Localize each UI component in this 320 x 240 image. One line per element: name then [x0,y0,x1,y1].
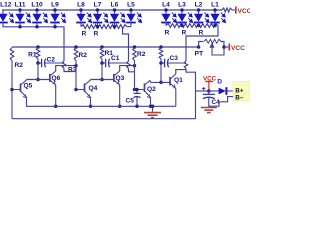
junction C5 emitter bus [135,105,139,109]
svg-text:R2: R2 [137,51,146,58]
resistor row R group3 [166,24,218,28]
resistor R2 stage2 [74,48,78,61]
wire group1 cathode rail [3,22,64,61]
junction cap node stage1 [36,61,40,65]
junction L7 on R row [96,25,100,29]
transistor Q5 [12,80,27,98]
transistor Q4 [76,80,91,98]
svg-text:Q2: Q2 [147,86,156,93]
svg-text:L6: L6 [111,1,119,8]
LED L4 [161,8,176,22]
wire LED cathode stub [198,22,200,25]
junction R1 top stage2 [100,45,104,49]
svg-text:VCC: VCC [231,45,245,52]
wire PT to VCC [224,46,228,48]
resistor R2 stage3 [133,48,137,61]
svg-text:Q5: Q5 [24,82,33,89]
junction base node stage1 [10,88,14,92]
LED L8 [76,8,91,22]
svg-text:L1: L1 [211,1,219,8]
junction base node stage2 [74,88,78,92]
junction emitter bus Q6 [54,105,58,109]
wire R1 bottom stage3 [160,59,162,82]
LED L11 [15,8,30,22]
junction group1 rail [35,25,39,29]
PT wiper arrow [210,43,224,55]
ground symbol 1 [144,113,161,118]
svg-text:Q1: Q1 [174,77,183,84]
wire PT right [221,42,225,48]
wire group3 loop to R3 stage3 [186,26,218,62]
junction R2 top stage3 [133,45,137,49]
svg-text:L11: L11 [15,1,26,8]
junction R2 bottom stage2 [74,64,78,68]
wire VCC stub [208,82,210,92]
svg-text:L9: L9 [51,1,59,8]
resistor R3 stage2 [127,61,131,69]
junction C5 top [135,88,139,92]
LED L6 [110,8,125,22]
LED L7 [93,8,108,22]
svg-text:L7: L7 [94,1,102,8]
resistor R1 stage2 [100,48,104,60]
junction base node stage3 [133,88,137,92]
wire R3 stage2 to Q2 base node [129,69,135,72]
junction group1 rail [53,25,57,29]
wire collector bus stage1 [26,79,50,81]
wire Q6 emitter [55,85,57,106]
wire Q2 emitter [150,97,152,106]
wire LED cathode stub [54,22,56,27]
resistor R3 stage3 [184,61,188,69]
svg-text:R3: R3 [68,66,77,73]
capacitor C4 [203,91,215,107]
wire top anode rail [2,9,222,11]
junction on group3 R row [180,24,184,28]
wire PT left [199,42,204,48]
svg-text:L10: L10 [31,1,43,8]
svg-text:L3: L3 [178,1,186,8]
wire collector bus stage3 [150,81,170,83]
svg-text:L8: L8 [77,1,85,8]
wire Q4 emitter [90,97,92,106]
resistor R3 stage1 [62,61,66,69]
wire R1 bottom stage1 [37,59,39,80]
junction base bus stage1 [36,78,40,82]
svg-text:C5: C5 [126,98,135,105]
transistor Q6 [50,71,56,85]
wire R2 descender stage1 [11,61,13,119]
ground symbol 2 [201,108,217,113]
svg-text:VCC: VCC [238,8,251,15]
wire R1 bottom stage2 [101,59,103,80]
junction emitter bus Q2 [149,105,153,109]
svg-text:R2: R2 [79,52,88,59]
junction ground1 [151,105,155,109]
junction cap node stage2 [100,61,104,65]
wire R2 descender stage3 [134,61,136,91]
resistor R1 stage3 [159,48,163,60]
diode D [219,87,233,95]
LED L12 [0,10,14,23]
svg-text:D: D [217,78,222,85]
junction R1 top stage1 [36,45,40,49]
capacitor C1 [102,59,111,68]
transistor Q3 [114,71,120,85]
junction supply node [207,89,211,93]
wire L4 cathode stub [165,22,167,25]
junction R2 top stage2 [74,45,78,49]
wire C1 to R3 [111,62,129,64]
junction base bus stage3 [159,81,163,85]
wire C2 to R3 [47,62,64,64]
svg-text:R: R [82,30,87,37]
transistor Q1 [170,74,176,89]
junction on group3 R row [213,24,217,28]
LED L9 [50,8,65,22]
svg-text:L2: L2 [195,1,203,8]
wire C3 to R3 [170,62,186,64]
wire Q4 collector [89,80,91,81]
junction PT left [197,45,201,49]
power bar VCC supply [206,81,214,83]
wire Q1 emitter [175,89,177,107]
svg-text:R: R [199,29,204,36]
svg-text:R: R [94,30,99,37]
wire C5 tap [136,90,138,94]
wire node left [196,90,209,92]
wire R3 stage3 to ring [186,69,196,119]
wire row to L5 [127,26,131,28]
LED L3 [177,8,192,22]
wire emitter bus [26,105,176,107]
wire L6 cathode stub [114,22,116,26]
wire group2 drop to R3 stage2 [123,27,129,61]
svg-text:R: R [182,29,187,36]
capacitor C3 [161,59,170,68]
wire L7 cathode stub [97,22,99,26]
wire LED cathode stub [214,22,216,25]
wire L8 cathode stub [80,22,82,26]
svg-text:C3: C3 [170,55,179,62]
svg-text:R1: R1 [28,51,37,58]
wire mid rail [12,46,199,48]
junction group1 rail [18,25,22,29]
svg-text:Q4: Q4 [89,85,98,92]
wire Q3 emitter [119,85,121,106]
wire R to VCC bar [232,9,235,11]
junction emitter bus Q3 [118,105,122,109]
resistor R2 stage1 [10,48,14,61]
junction R1 top stage3 [159,45,163,49]
wire LED cathode stub [36,22,38,27]
svg-text:C1: C1 [111,55,120,62]
svg-text:Q3: Q3 [116,75,125,82]
power bar VCC top [235,7,237,14]
LED L10 [32,8,47,22]
LED L2 [194,8,209,22]
resistor row R group2 [81,25,127,29]
resistor R top-right [222,8,232,12]
junction emitter bus Q4 [89,105,93,109]
svg-text:B–: B– [235,94,244,101]
wire Q3 collector to R2 stage3 [120,66,135,71]
battery connector box [233,82,250,101]
capacitor C2 [38,59,47,68]
svg-text:L12: L12 [0,1,12,8]
wire Q1 collector to R3 stage3 [176,70,186,74]
junction PT wiper join [222,45,226,49]
svg-text:L5: L5 [127,1,135,8]
svg-text:Q6: Q6 [52,75,61,82]
potentiometer PT body [204,39,221,43]
svg-text:L4: L4 [162,1,170,8]
wire B- to ground [209,97,233,107]
LED L1 [210,8,225,22]
wire LED cathode stub [19,22,21,27]
junction R2 bottom stage3 [133,64,137,68]
svg-text:R: R [165,29,170,36]
svg-text:R2: R2 [15,62,24,69]
capacitor C5 [134,93,141,106]
plus sign C4 [202,87,205,90]
wire LED cathode stub [181,22,183,25]
wire L5 cathode stub [130,22,132,26]
LED L5 [126,8,141,22]
resistor R1 stage1 [36,48,40,60]
transistor Q2 [135,80,151,98]
wire R3 stage1 to Q4 base node [64,69,76,72]
wire R2 descender stage2 [75,61,77,91]
wire Q2 collector [149,81,151,83]
junction base bus stage2 [100,78,104,82]
wire ground1 stem [152,106,154,112]
wire Q6 collector to R2 stage2 [56,66,76,71]
junction L6 on R row [113,25,117,29]
svg-text:PT: PT [195,51,205,58]
wire Q5 collector [25,80,27,81]
wire bottom ring [12,118,196,120]
power bar VCC mid [228,44,230,51]
junction cap node stage3 [159,61,163,65]
wire collector bus stage2 [90,79,114,81]
junction on group3 R row [197,24,201,28]
wire node to diode [209,90,219,92]
wire Q5 emitter [26,97,28,106]
